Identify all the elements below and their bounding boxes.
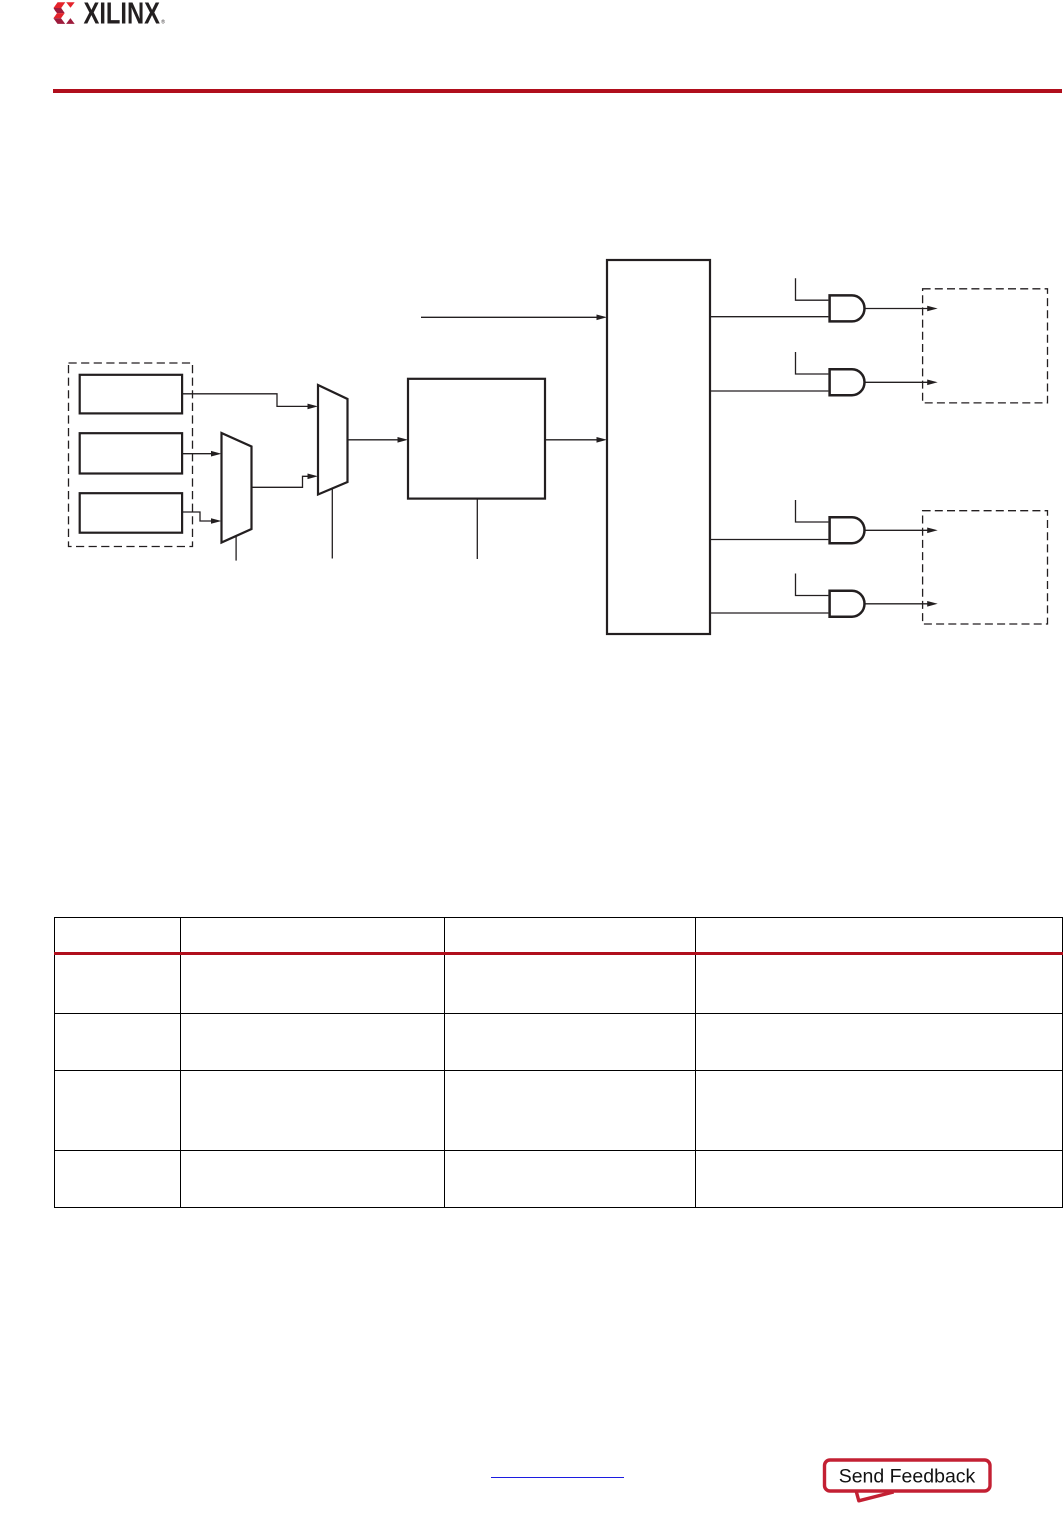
svg-text:Send Feedback: Send Feedback [839, 1466, 976, 1488]
